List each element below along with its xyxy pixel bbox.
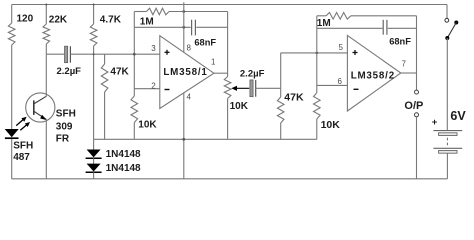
svg-text:4: 4 [187, 92, 192, 101]
node O/P lower terminal [415, 113, 419, 117]
svg-text:SFH: SFH [13, 140, 33, 151]
junction pin3 crossing [133, 53, 136, 56]
svg-text:6V: 6V [450, 109, 466, 123]
pin 6 [338, 77, 343, 86]
svg-text:22K: 22K [49, 14, 68, 25]
label 47K stage2 [284, 91, 304, 103]
wire top supply rail [12, 4, 447, 6]
resistor 120 (left rail) [8, 5, 15, 130]
wire rail to switch [446, 5, 448, 19]
junction 68nF-pin8 [182, 26, 185, 29]
svg-text:O/P: O/P [404, 100, 423, 112]
svg-text:47K: 47K [284, 91, 304, 103]
svg-text:1N4148: 1N4148 [106, 149, 141, 160]
svg-text:2.2µF: 2.2µF [240, 68, 265, 79]
wire pin2 node vertical [133, 12, 135, 97]
svg-text:2: 2 [151, 81, 156, 90]
svg-text:1: 1 [211, 58, 216, 67]
label 10K stage1 [138, 119, 157, 130]
label LM358/1 [163, 67, 207, 78]
svg-text:3: 3 [151, 44, 156, 53]
label 1M stage1 [140, 17, 154, 28]
op-amp1 minus [165, 89, 170, 91]
svg-text:120: 120 [17, 14, 34, 25]
svg-text:68nF: 68nF [194, 38, 216, 48]
capacitor 2.2uF interstage [250, 80, 256, 97]
junction rail-4.7K [93, 4, 95, 6]
wire pin2 [134, 88, 160, 90]
op-amp2 plus [353, 50, 358, 55]
wire bias node line [94, 138, 317, 140]
wire pin4 [183, 93, 185, 179]
svg-text:4.7K: 4.7K [100, 14, 122, 25]
label 6V [450, 109, 466, 123]
label 1M stage2 [317, 18, 331, 29]
svg-text:1M: 1M [317, 18, 331, 29]
pin 7 [402, 60, 407, 69]
resistor 1M stage2 [317, 13, 417, 20]
phototransistor collector [34, 54, 47, 104]
label SFH 309 FR [56, 109, 76, 145]
wire output stage2 [401, 72, 417, 74]
resistor 22K [43, 5, 50, 55]
light arrow 1 [16, 117, 26, 126]
label 4.7K [100, 14, 122, 25]
label 10K trimpot [230, 101, 249, 112]
junction rail-22K [45, 4, 47, 6]
svg-text:FR: FR [56, 133, 70, 144]
svg-text:10K: 10K [321, 119, 341, 131]
wire pin6 node vertical [316, 16, 318, 93]
switch open terminal [445, 18, 449, 22]
label 2.2uF input [57, 66, 82, 77]
label 1N4148 upper [106, 149, 141, 160]
wire output stage1 [214, 72, 228, 74]
resistor 10K stage2 [314, 93, 321, 140]
label 120 [17, 14, 34, 25]
junction pin5 crossing [316, 52, 319, 55]
trimpot wiper arrow [231, 86, 249, 91]
svg-text:5: 5 [339, 43, 344, 52]
pin 2 [151, 81, 156, 90]
svg-text:68nF: 68nF [389, 37, 411, 47]
battery cell1 positive plate [433, 130, 462, 132]
label 68nF stage2 [389, 37, 411, 47]
svg-text:2.2µF: 2.2µF [57, 66, 82, 77]
wire LED cathode to ground [11, 139, 13, 179]
svg-text:7: 7 [402, 60, 407, 69]
label battery plus [432, 117, 438, 128]
svg-text:6: 6 [338, 77, 343, 86]
wire O/P lower to ground [416, 117, 418, 179]
wire junction up to pin5 [280, 53, 282, 88]
wire pin6 [317, 84, 348, 86]
label 1N4148 lower [106, 163, 141, 174]
diode 1N4148 lower [86, 158, 102, 179]
svg-text:LM358/1: LM358/1 [163, 67, 207, 78]
LED SFH487 [5, 129, 19, 138]
junction 4.7K-signal [93, 53, 95, 55]
op-amp2 minus [354, 88, 359, 90]
svg-text:10K: 10K [230, 101, 249, 112]
label LM358/2 [351, 70, 395, 81]
capacitor 68nF stage2 [383, 20, 387, 35]
label 2.2uF interstage [240, 68, 265, 79]
op-amp U2 LM358/2 [347, 35, 400, 111]
svg-text:1M: 1M [140, 17, 154, 28]
svg-text:10K: 10K [138, 119, 157, 130]
wire 68nF line stage1 [134, 26, 227, 28]
op-amp U1 LM358/1 [160, 36, 214, 109]
label 22K [49, 14, 68, 25]
phototransistor base bar [33, 100, 35, 115]
battery dashed link [446, 138, 448, 147]
resistor 4.7K [90, 5, 97, 140]
svg-text:47K: 47K [110, 66, 129, 77]
node O/P upper terminal [415, 90, 419, 94]
wire battery to ground [446, 153, 448, 179]
switch arm [445, 21, 458, 41]
phototransistor emitter [34, 111, 47, 179]
wire pin8 supply [183, 2, 185, 52]
svg-text:309: 309 [56, 122, 73, 133]
junction pin4-node [182, 138, 185, 141]
label 68nF stage1 [194, 38, 216, 48]
light arrow 2 [20, 122, 30, 130]
capacitor 2.2uF input [65, 46, 71, 63]
resistor 10K stage1 [131, 96, 138, 139]
label 10K stage2 [321, 119, 341, 131]
svg-text:8: 8 [187, 44, 192, 53]
wire bottom ground rail [12, 178, 448, 180]
op-amp1 plus [165, 50, 170, 55]
svg-text:+: + [432, 117, 438, 128]
pin 8 [187, 44, 192, 53]
wire switch to battery [446, 38, 448, 131]
trimpot 10K vertical [224, 12, 231, 140]
label 47K stage1 [110, 66, 129, 77]
svg-text:LM358/2: LM358/2 [351, 70, 395, 81]
pin 4 [187, 92, 192, 101]
junction 1M-pin8 [182, 10, 185, 13]
battery cell1 negative plate [439, 133, 457, 136]
resistor 1M stage1 [134, 8, 227, 15]
wire 22K junction to cap [46, 53, 64, 55]
label SFH 487 [13, 140, 33, 163]
diode 1N4148 upper [86, 139, 102, 158]
capacitor 68nF stage1 [192, 20, 196, 36]
battery cell2 positive plate [433, 147, 462, 149]
label O/P [404, 100, 423, 112]
pin 1 [211, 58, 216, 67]
svg-text:487: 487 [13, 152, 30, 163]
resistor 47K stage2 [277, 88, 284, 139]
svg-text:1N4148: 1N4148 [106, 163, 141, 174]
wire 68nF line stage2 [317, 27, 417, 29]
phototransistor SFH309 circle [26, 93, 55, 122]
battery cell2 negative plate [439, 151, 457, 154]
wire cap to pin3 [70, 53, 159, 55]
pin 5 [339, 43, 344, 52]
svg-text:SFH: SFH [56, 109, 76, 120]
resistor 47K stage1 [101, 54, 108, 139]
pin 3 [151, 44, 156, 53]
wire cap to 47K junction [256, 87, 281, 89]
wire pin5 [281, 52, 348, 54]
wire output down [416, 16, 418, 90]
